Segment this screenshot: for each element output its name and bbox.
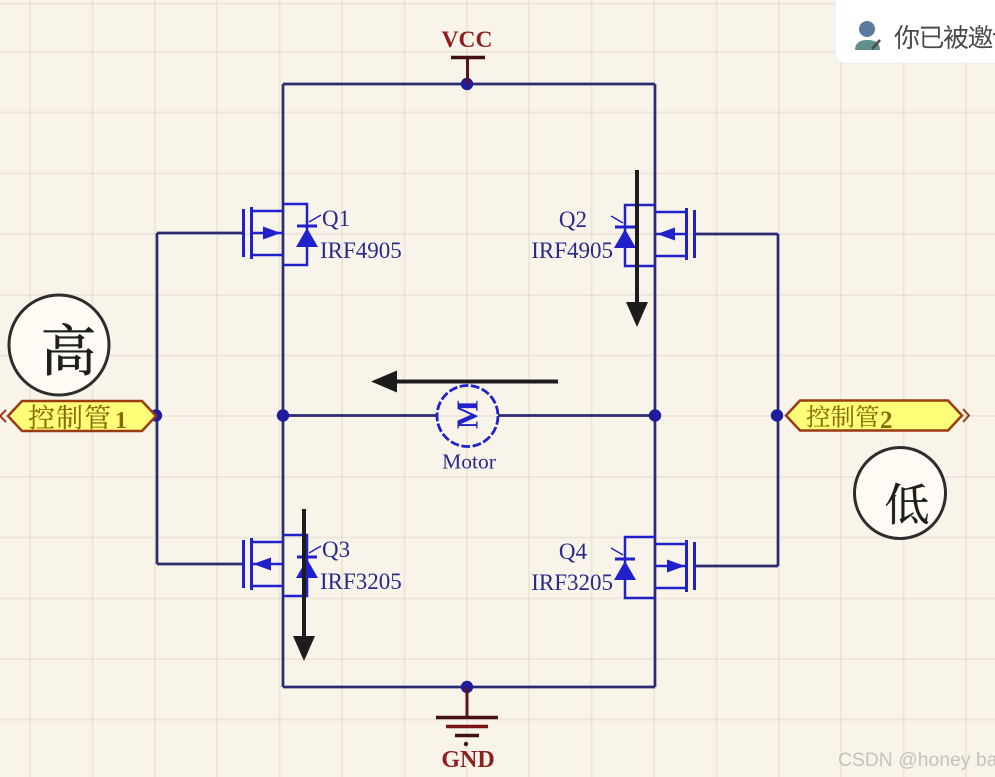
- junction VCC: [461, 78, 473, 90]
- port 控制管2: [786, 401, 962, 431]
- svg-text:Q4: Q4: [559, 539, 588, 564]
- transistor Q4 IRF3205: [611, 537, 695, 598]
- wire left gate rail (net 控制管1): [156, 233, 159, 564]
- svg-text:IRF4905: IRF4905: [531, 238, 613, 263]
- svg-text:IRF3205: IRF3205: [531, 570, 613, 595]
- junction right-mid: [649, 409, 661, 421]
- svg-text:IRF4905: IRF4905: [320, 238, 402, 263]
- wire bottom rail GND net: [283, 686, 655, 689]
- arrow current direction left (above motor): [371, 371, 558, 393]
- wire right gate rail (net 控制管2): [777, 234, 780, 566]
- wire motor right: [498, 414, 655, 417]
- svg-text:2: 2: [880, 407, 893, 434]
- wire right rail (Q2 / Q4): [654, 84, 657, 687]
- node 高 (high) circle: [9, 295, 109, 395]
- arrow current direction down (Q3 side): [293, 509, 315, 661]
- wire motor left: [283, 414, 437, 417]
- svg-text:M: M: [450, 400, 485, 429]
- wire Q1 gate lead: [157, 232, 243, 235]
- notification popup box: [835, 0, 995, 63]
- ground GND symbol: [436, 687, 498, 736]
- transistor Q2 IRF4905: [611, 205, 695, 266]
- svg-text:VCC: VCC: [442, 27, 493, 53]
- transistor Q1 IRF4905: [244, 204, 322, 265]
- svg-text:CSDN @honey ball: CSDN @honey ball: [838, 750, 995, 771]
- label 控制管2 text: [807, 405, 893, 434]
- label 你已被邀请: [895, 25, 995, 49]
- node 低 (low) circle: [855, 448, 946, 539]
- svg-text:Q2: Q2: [559, 207, 587, 232]
- motor M1 circle: [437, 386, 498, 447]
- junction left-mid: [277, 409, 289, 421]
- wire Q3 gate lead: [157, 563, 243, 566]
- svg-text:Q1: Q1: [322, 206, 350, 231]
- junction GND: [461, 681, 473, 693]
- svg-text:1: 1: [115, 408, 127, 434]
- svg-text:Q3: Q3: [322, 537, 350, 562]
- junction port1: [150, 409, 162, 421]
- wire top rail VCC net: [283, 83, 655, 86]
- wire left rail (Q1 drain / Q3 drain): [282, 84, 285, 687]
- arrow current direction down (Q2 side): [626, 170, 648, 327]
- wire Q2 gate lead: [695, 233, 778, 236]
- wire Q4 gate lead: [695, 565, 778, 568]
- port 控制管1: [8, 401, 156, 431]
- icon invite user: [859, 21, 875, 37]
- label 控制管1 text: [29, 405, 127, 434]
- svg-text:IRF3205: IRF3205: [320, 569, 402, 594]
- power VCC symbol: [451, 58, 485, 85]
- transistor Q3 IRF3205: [244, 535, 322, 596]
- junction port2: [771, 409, 783, 421]
- svg-text:Motor: Motor: [442, 450, 496, 474]
- svg-text:GND: GND: [441, 747, 494, 773]
